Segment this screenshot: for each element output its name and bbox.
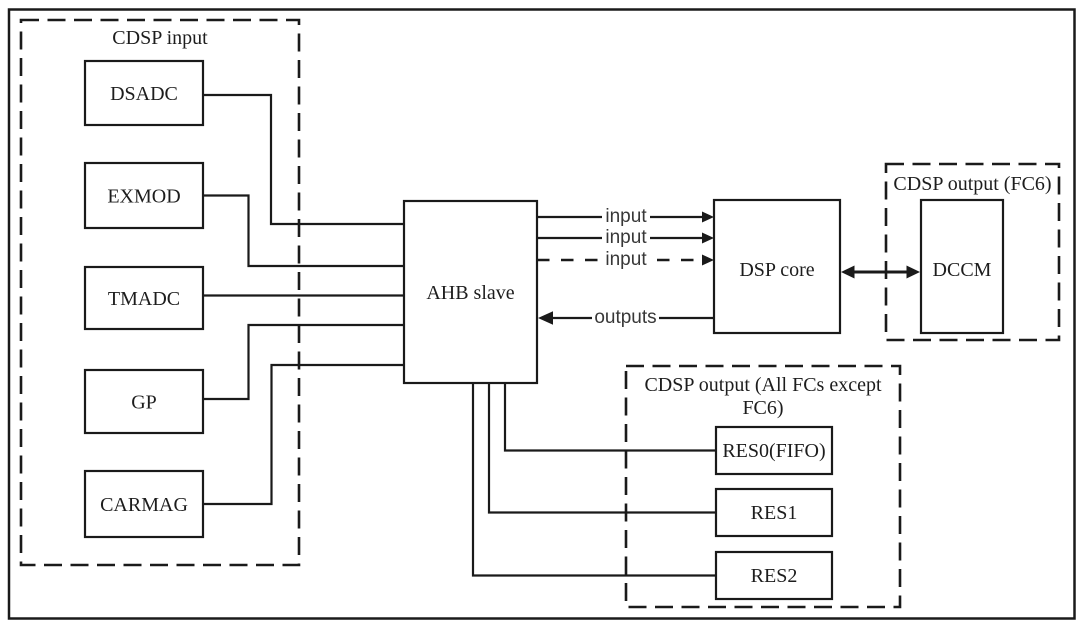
svg-text:input: input	[605, 206, 647, 227]
svg-text:input: input	[605, 249, 647, 270]
svg-text:CDSP input: CDSP input	[112, 27, 208, 49]
svg-text:FC6): FC6)	[742, 397, 783, 419]
svg-text:RES0(FIFO): RES0(FIFO)	[722, 440, 825, 462]
svg-text:CARMAG: CARMAG	[100, 494, 188, 516]
svg-text:CDSP output (All FCs except: CDSP output (All FCs except	[644, 374, 881, 396]
svg-text:AHB slave: AHB slave	[426, 282, 514, 304]
svg-text:TMADC: TMADC	[108, 288, 180, 310]
svg-text:EXMOD: EXMOD	[107, 186, 180, 208]
svg-text:GP: GP	[131, 392, 157, 414]
svg-text:RES2: RES2	[751, 565, 798, 587]
svg-text:outputs: outputs	[594, 307, 656, 328]
svg-text:DCCM: DCCM	[933, 259, 992, 281]
svg-text:CDSP output (FC6): CDSP output (FC6)	[893, 173, 1051, 195]
svg-text:DSP core: DSP core	[739, 259, 814, 281]
svg-text:input: input	[605, 227, 647, 248]
svg-text:RES1: RES1	[751, 502, 798, 524]
svg-text:DSADC: DSADC	[110, 83, 178, 105]
